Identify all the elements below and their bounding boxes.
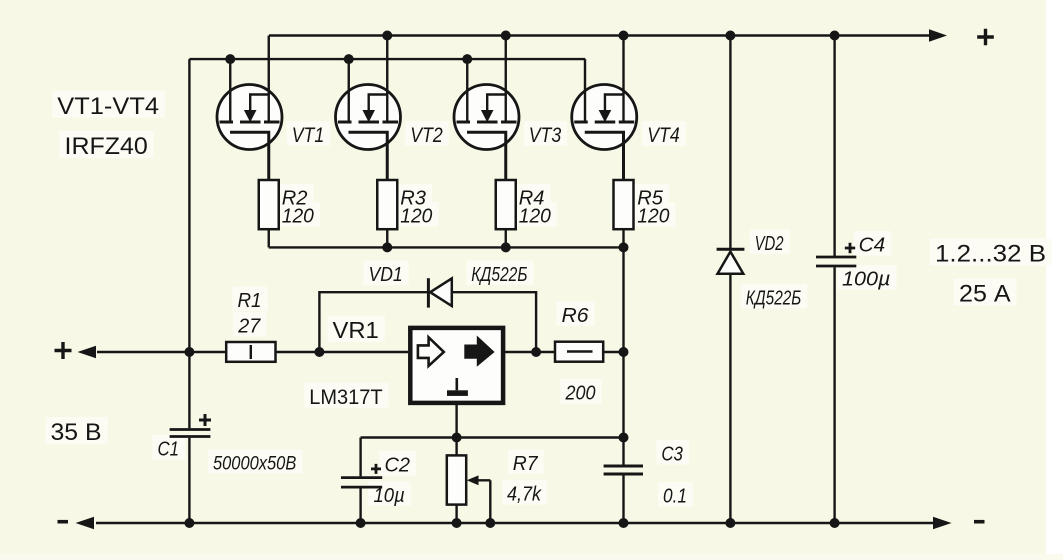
resistor R4 120 (gate): [496, 180, 516, 247]
svg-text:120: 120: [400, 205, 433, 228]
svg-text:VT1: VT1: [292, 124, 325, 147]
diode VD1: [428, 278, 451, 307]
diode VD1 loop wire: [319, 292, 536, 352]
+ sign output: [977, 29, 994, 46]
svg-text:VT4: VT4: [647, 124, 680, 147]
transistor VT1 (IRFZ40): [217, 36, 282, 181]
LM317 output arrow (solid): [464, 336, 494, 367]
transistor VT4 (IRFZ40): [572, 36, 637, 181]
svg-text:50000x50В: 50000x50В: [213, 452, 296, 474]
text halo patches: [46, 91, 1053, 507]
white bottom edge strip: [0, 554, 1063, 560]
svg-text:LM317T: LM317T: [309, 385, 382, 409]
C1 plus: [199, 414, 211, 426]
junction dots drain rail: [225, 54, 235, 64]
capacitor C4 100µ: [816, 36, 856, 524]
svg-text:VR1: VR1: [333, 317, 379, 343]
svg-text:R7: R7: [513, 452, 539, 475]
svg-text:120: 120: [282, 205, 315, 228]
LM317 adj mark: [455, 378, 458, 390]
svg-text:C1: C1: [158, 438, 180, 461]
wire gate rail down to R6 node: [622, 247, 624, 466]
junction dots mid line: [184, 347, 194, 357]
junction dots bottom rail: [184, 518, 194, 528]
svg-text:R6: R6: [562, 304, 590, 327]
gate resistor common rail: [269, 246, 624, 248]
svg-text:C4: C4: [859, 234, 886, 257]
svg-text:120: 120: [637, 205, 670, 228]
minus sign right: [974, 520, 985, 524]
svg-text:R1: R1: [238, 289, 262, 312]
svg-text:IRFZ40: IRFZ40: [65, 133, 148, 160]
svg-text:120: 120: [519, 205, 552, 228]
top output rail (+): [269, 34, 931, 36]
transistor VT2 (IRFZ40): [336, 36, 401, 181]
svg-text:VT1-VT4: VT1-VT4: [57, 93, 159, 120]
capacitor C2 10µ: [341, 438, 382, 524]
svg-text:1.2...32 В: 1.2...32 В: [935, 241, 1046, 268]
adj net line: [361, 436, 624, 438]
diode VD2: [717, 249, 745, 273]
main mid line: + input to regulator: [97, 351, 408, 353]
svg-text:10µ: 10µ: [374, 484, 405, 507]
svg-text:VD2: VD2: [755, 232, 784, 255]
svg-text:VD1: VD1: [369, 263, 403, 286]
resistor R2 120 (gate): [259, 180, 279, 247]
svg-text:100µ: 100µ: [842, 268, 891, 291]
svg-text:VT3: VT3: [529, 124, 562, 147]
svg-text:C2: C2: [385, 454, 411, 477]
input rail to MOSFET drains: [189, 58, 585, 60]
LM317 adj pin wire: [455, 403, 457, 438]
transistor VT3 (IRFZ40): [454, 36, 519, 181]
C2 plus: [371, 464, 381, 474]
arrow + input: [78, 346, 97, 359]
white right edge strip: [1046, 0, 1063, 560]
svg-text:4,7k: 4,7k: [507, 483, 543, 506]
svg-text:VT2: VT2: [410, 124, 443, 147]
potentiometer R7 4,7k: [447, 438, 491, 524]
wire LM317 out to R6: [503, 351, 623, 353]
junction dots top rail: [382, 31, 392, 41]
arrow - right: [933, 517, 952, 530]
capacitor C1 50000x50В: [170, 352, 211, 523]
arrow + output: [929, 29, 947, 42]
svg-text:КД522Б: КД522Б: [746, 287, 802, 310]
svg-text:C3: C3: [661, 443, 683, 466]
svg-text:27: 27: [237, 315, 261, 338]
svg-text:200: 200: [565, 382, 596, 405]
svg-text:0.1: 0.1: [663, 485, 687, 508]
regulator U1 LM317T box: [410, 328, 503, 403]
bottom rail (-): [96, 522, 933, 524]
C4 plus: [845, 243, 855, 253]
LM317 input arrow (hollow): [418, 337, 444, 366]
junction dots adj line: [452, 433, 462, 443]
resistor R6 200: [555, 342, 603, 362]
capacitor C3 0.1: [604, 466, 643, 474]
svg-text:35 В: 35 В: [51, 419, 102, 446]
resistor R1 27: [226, 342, 275, 362]
svg-text:25 А: 25 А: [959, 281, 1011, 308]
+ sign input: [55, 342, 72, 359]
diode VD2 wire: [729, 36, 731, 250]
left input wire (vertical): [188, 59, 190, 352]
svg-text:КД522Б: КД522Б: [471, 263, 527, 286]
resistor R3 120 (gate): [377, 180, 397, 247]
junction dots gate rail: [382, 242, 392, 252]
arrow - left: [76, 517, 95, 530]
minus sign left: [58, 520, 69, 524]
resistor R5 120 (gate): [614, 180, 634, 247]
